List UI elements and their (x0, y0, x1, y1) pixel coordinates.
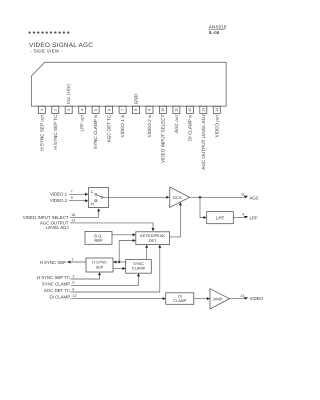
svg-text:GCA: GCA (173, 195, 182, 200)
underline of part number (209, 28, 225, 30)
svg-text:13: 13 (202, 108, 206, 112)
pin 5 box (92, 106, 99, 113)
svg-text:AN5916: AN5916 (209, 24, 227, 29)
SYNC CLAMP block (126, 260, 152, 274)
svg-text:7: 7 (71, 190, 73, 194)
svg-text:11: 11 (175, 108, 179, 112)
wire pin 2 to h sync sep bottom (71, 274, 100, 279)
svg-text:VIDEO INPUT SELECT: VIDEO INPUT SELECT (160, 114, 165, 163)
KEYED/PEAK DET block (136, 232, 170, 245)
LPF block (207, 212, 234, 224)
wire pin 5 to sync clamp bottom (71, 276, 139, 286)
svg-text:DI CLAMP: DI CLAMP (49, 295, 70, 300)
svg-text:SYNC CLAMP: SYNC CLAMP (42, 281, 70, 286)
svg-text:14: 14 (215, 108, 219, 112)
wire pin10 to switch bottom (70, 211, 99, 218)
wire switch output to GCA (103, 196, 168, 198)
svg-text:Vcc (+5V): Vcc (+5V) (66, 83, 71, 104)
svg-text:- SIDE VIEW -: - SIDE VIEW - (30, 48, 63, 53)
svg-text:DET: DET (149, 238, 157, 243)
junction node on sync line (118, 261, 120, 263)
svg-text:3: 3 (67, 109, 71, 111)
svg-text:AGC OUTPUT LEVEL ADJ: AGC OUTPUT LEVEL ADJ (201, 115, 206, 170)
svg-text:AGC DET TC: AGC DET TC (44, 288, 70, 293)
wire sync clamp to h sync sep (upper) (113, 261, 126, 263)
svg-text:H: H (91, 202, 94, 207)
wire junction down to LPF (200, 197, 205, 217)
svg-text:CLAMP: CLAMP (132, 266, 146, 271)
pin 2 box (52, 106, 59, 113)
wire sync clamp top to keyed/peak det bottom (146, 247, 148, 260)
pin 13 box (200, 106, 207, 113)
svg-text:SEP: SEP (96, 264, 104, 269)
wire B.G. REF to keyed/peak det (112, 234, 134, 236)
svg-text:11: 11 (241, 192, 245, 196)
pin 10 box (159, 106, 166, 113)
wire keyed/peak det output to GCA (170, 204, 181, 237)
svg-text:7: 7 (121, 109, 125, 111)
AMP output amplifier triangle (210, 289, 230, 309)
pin 14 box (213, 106, 220, 113)
svg-text:H SYNC SEP TC: H SYNC SEP TC (37, 275, 70, 280)
svg-text:13: 13 (71, 219, 75, 223)
wire h-sync tap to keyed/peak det (119, 241, 133, 263)
svg-text:9: 9 (71, 196, 73, 200)
wire GCA output to pin 11 AGC (190, 196, 246, 198)
svg-text:GND: GND (134, 93, 139, 104)
svg-text:LPF OUT: LPF OUT (80, 115, 85, 132)
GCA amplifier triangle (170, 187, 190, 207)
pin 3 box (65, 106, 72, 113)
svg-text:1: 1 (40, 109, 44, 111)
svg-text:AMP: AMP (213, 296, 222, 301)
svg-text:4: 4 (242, 212, 244, 216)
H SYNC SEP block (86, 258, 113, 272)
svg-text:H SYNC SEP TC: H SYNC SEP TC (53, 114, 58, 150)
junction node at GCA output (199, 196, 201, 198)
svg-text:REF: REF (94, 238, 103, 243)
IC package outline (side view, chamfered corner) (31, 62, 226, 106)
svg-text:8: 8 (134, 109, 138, 111)
svg-text:**********: ********** (28, 31, 71, 38)
svg-text:LPF: LPF (216, 215, 225, 220)
svg-text:10: 10 (71, 213, 75, 217)
svg-text:VIDEO 1: VIDEO 1 (50, 191, 68, 196)
svg-text:6: 6 (107, 109, 111, 111)
svg-text:VIDEO 2 IN: VIDEO 2 IN (147, 114, 152, 137)
pin 11 box (173, 106, 180, 113)
svg-text:5: 5 (94, 109, 98, 111)
svg-text:AGC: AGC (250, 195, 259, 200)
DI CLAMP block (166, 293, 194, 305)
svg-text:CLAMP: CLAMP (173, 298, 187, 303)
video input selector switch box (89, 188, 109, 208)
wire VIDEO 1 to switch (69, 193, 86, 195)
svg-text:SYNC CLAMP IN: SYNC CLAMP IN (93, 114, 98, 149)
pin 7 box (119, 106, 126, 113)
svg-text:H SYNC SEP OUT: H SYNC SEP OUT (39, 115, 44, 151)
svg-text:12: 12 (72, 294, 76, 298)
pin 6 box (106, 106, 113, 113)
wire H SYNC SEP box to pin 1 (67, 261, 86, 263)
svg-text:H SYNC SEP: H SYNC SEP (40, 260, 66, 265)
pin 4 box (79, 106, 86, 113)
svg-text:AGC OUT: AGC OUT (174, 115, 179, 133)
svg-text:2: 2 (72, 274, 74, 278)
switch L contact circle (95, 193, 97, 195)
wire LPF output to pin 4 (233, 217, 246, 219)
svg-text:VIDEO OUT: VIDEO OUT (214, 115, 219, 138)
svg-text:VIDEO: VIDEO (250, 296, 264, 301)
svg-text:VIDEO INPUT SELECT: VIDEO INPUT SELECT (23, 215, 69, 220)
pin 9 box (146, 106, 153, 113)
svg-text:IL-08: IL-08 (209, 30, 220, 35)
wire VIDEO 2 to switch (69, 200, 86, 202)
svg-text:4: 4 (80, 109, 84, 111)
svg-text:1: 1 (71, 257, 73, 261)
svg-text:6: 6 (72, 287, 74, 291)
switch pole circle (101, 196, 103, 198)
svg-text:9: 9 (148, 109, 152, 111)
wire pin 12 to DI CLAMP block (71, 298, 164, 300)
wire DI CLAMP to AMP (194, 298, 208, 300)
svg-text:L: L (91, 189, 94, 194)
svg-text:10: 10 (161, 108, 165, 112)
pin 1 box (38, 106, 45, 113)
svg-text:12: 12 (188, 108, 192, 112)
svg-text:2: 2 (54, 109, 58, 111)
switch lever (97, 195, 102, 197)
pin 12 box (186, 106, 193, 113)
svg-text:DI CLAMP IN: DI CLAMP IN (187, 114, 192, 141)
svg-text:5: 5 (72, 281, 74, 285)
svg-text:VIDEO 2: VIDEO 2 (50, 198, 68, 203)
switch H contact circle (95, 200, 97, 202)
wire pin 6 to keyed/peak det bottom (71, 247, 160, 292)
svg-text:LPF: LPF (250, 215, 258, 220)
wire pin13 to keyed/peak det top (70, 223, 153, 229)
wire AMP output to pin 14 (230, 298, 246, 300)
wire h sync sep to sync clamp (lower) (113, 268, 124, 270)
svg-text:LEVEL ADJ: LEVEL ADJ (46, 225, 69, 230)
pin 8 box (133, 106, 140, 113)
B.G. REF block (85, 232, 112, 245)
svg-text:AGC DET TC: AGC DET TC (107, 114, 112, 142)
svg-text:VIDEO 1 IN: VIDEO 1 IN (120, 114, 125, 137)
